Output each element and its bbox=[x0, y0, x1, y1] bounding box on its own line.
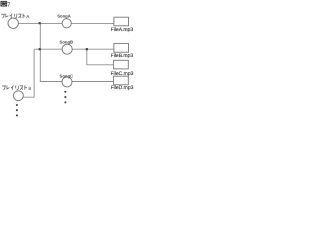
svg-text:FileB.mp3: FileB.mp3 bbox=[111, 53, 134, 59]
svg-text:B: B bbox=[28, 86, 31, 91]
svg-text:FileD.mp3: FileD.mp3 bbox=[111, 85, 134, 91]
svg-text:FileC.mp3: FileC.mp3 bbox=[111, 71, 134, 77]
svg-text:A: A bbox=[26, 14, 30, 19]
svg-text:SongC: SongC bbox=[60, 74, 74, 79]
svg-text:7: 7 bbox=[7, 1, 11, 8]
svg-text:SongA: SongA bbox=[57, 14, 71, 19]
svg-text:FileA.mp3: FileA.mp3 bbox=[111, 27, 134, 33]
svg-text:SongB: SongB bbox=[60, 40, 74, 45]
